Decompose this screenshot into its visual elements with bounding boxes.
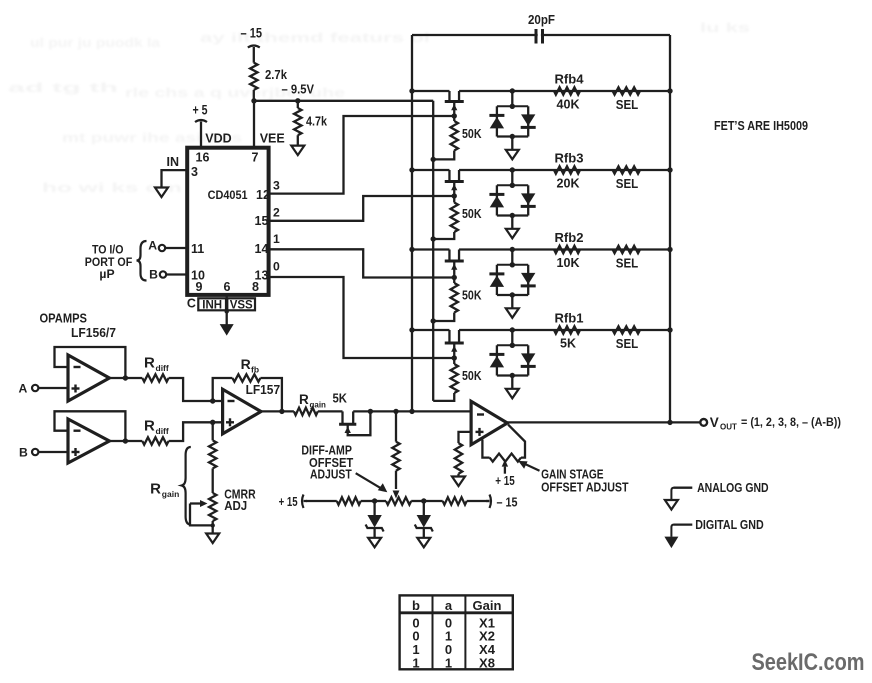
label 5K value [560,337,576,351]
wire pin13 to gate4 [269,277,455,358]
ground diode pair D4 [506,376,519,399]
svg-text:20pF: 20pF [528,12,555,27]
svg-text:5K: 5K [560,337,576,351]
svg-text:– 15: – 15 [497,494,518,509]
node -9.5V junction [251,98,300,103]
node 50K row2 to -9.5V rail [431,236,436,241]
svg-text:FET’S ARE IH5009: FET’S ARE IH5009 [714,119,808,133]
ground diode pair D3 [506,295,519,318]
terminal B [149,267,166,281]
wire Q5 to gain stage [353,409,471,414]
label Rfb4 [555,73,584,87]
svg-text:1: 1 [412,656,419,671]
ground diode pair D1 [506,137,519,160]
resistor U5 + to ground [455,443,462,476]
transistor Q1 IH5009 switch [445,91,464,116]
svg-text:C: C [187,297,196,311]
label C [187,297,196,311]
svg-text:14: 14 [255,242,269,256]
label Rfb2 [555,231,584,245]
wire U4 output [261,409,294,414]
label ADJ [224,499,247,513]
svg-text:ad tg th: ad tg th [8,80,118,95]
wire Rdiff A to U4- [169,378,223,404]
wire B to U3+ [38,451,68,453]
diode pair D4 [489,330,535,378]
node zener1 tap [372,498,377,503]
wire +15 to R [306,500,337,502]
svg-text:50K: 50K [462,369,482,383]
zener Z1 ground [368,538,381,548]
wire U3 output [109,438,142,443]
resistor Rgain vertical [209,422,216,493]
wire U5 output to VOUT [507,420,700,425]
svg-text:GAIN STAGE: GAIN STAGE [541,468,604,482]
label PORT OF [85,255,133,269]
svg-text:2: 2 [273,206,280,220]
svg-text:R: R [144,418,155,435]
wire A to pin11 [165,247,187,249]
rail output x670 [669,35,671,422]
label Rfb3 [555,152,584,166]
svg-text:10K: 10K [557,256,580,270]
svg-text:3: 3 [273,178,280,192]
wire row1 right [459,88,673,93]
pin 13 label [255,269,269,283]
wire top loop [412,34,670,36]
label 10K value [557,256,580,270]
zener Z2 ground [417,538,430,548]
svg-text:DIGITAL GND: DIGITAL GND [695,518,764,532]
svg-text:ANALOG GND: ANALOG GND [697,481,769,495]
resistor SEL row4 [613,326,640,333]
node 50K row1 to -9.5V rail [431,157,436,162]
zener Z1 [366,501,384,538]
label LF157 [246,383,281,397]
svg-text:7: 7 [252,151,259,165]
ground below 4.7k [291,135,304,155]
table row 4 [412,656,495,671]
resistor 50K row3 [433,278,458,322]
box INH [198,298,226,311]
label FETs note [714,119,808,133]
svg-text:– 9.5V: – 9.5V [282,82,315,97]
pin 10 label [191,269,205,283]
pin 11 label [191,242,204,256]
capacitor 20pF [536,29,543,44]
svg-text:A: A [148,239,157,253]
label ch 0 [273,260,280,274]
label DIFF-AMP [301,443,352,457]
transistor Q5 5K switch [339,411,370,435]
pin 6 label [224,280,231,294]
label -15 right [497,494,518,509]
svg-text:INH: INH [202,299,222,311]
svg-text:1: 1 [273,232,280,246]
svg-text:SEL: SEL [616,257,639,271]
wire pin14 to gate3 [269,249,455,277]
pin 16 label [196,151,210,165]
label LF156/7 [71,326,116,340]
digital ground symbol [664,525,692,549]
node zener2 tap [421,498,426,503]
label Rdiff B [144,418,169,437]
svg-text:Rfb1: Rfb1 [555,312,584,326]
svg-text:R: R [299,392,309,407]
svg-text:CD4051: CD4051 [208,188,248,202]
label DIGITAL GND [695,518,764,532]
wire row2 right [459,167,673,172]
table header a [445,598,453,613]
wire pin6 to digital ground [225,295,229,325]
resistor SEL row2 [613,166,640,173]
table row 1 [412,615,495,630]
svg-text:X8: X8 [479,656,495,671]
rail -9.5V x433 [432,101,434,401]
wire row1 left [409,88,449,93]
table header Gain [473,598,502,613]
label IN [167,155,180,169]
resistor Rdiff B [142,437,168,444]
box VSS [227,298,255,311]
digital ground under chip [220,324,234,336]
wire row4 right [459,327,673,332]
label 40K value [557,98,580,112]
label 20K value [557,177,580,191]
resistor Rfb4 [554,87,580,94]
rail summing junction x412 [411,35,413,411]
terminal A [148,239,165,253]
wire B to pin10 [166,273,187,275]
svg-text:20K: 20K [557,177,580,191]
table header b [412,598,420,613]
svg-text:40K: 40K [557,98,580,112]
svg-text:50K: 50K [462,289,482,303]
svg-text:9: 9 [196,280,203,294]
svg-text:LF156/7: LF156/7 [71,326,116,340]
label -9.5V [282,82,315,97]
potentiometer gain offset [482,425,525,474]
wire A to U2+ [38,387,68,389]
analog ground symbol [665,488,692,510]
resistor offset left [337,497,375,504]
pin 7 label [252,151,259,165]
svg-text:+ 5: + 5 [193,103,208,118]
wiper CMRR [190,500,215,528]
label TO I/O [92,243,124,257]
potentiometer CMRR [209,493,216,534]
svg-text:Rfb4: Rfb4 [555,73,584,87]
resistor SEL row3 [613,246,640,253]
label VEE [260,132,285,146]
wiper arrow diff offset [393,491,400,499]
wire row3 left [409,247,449,252]
svg-text:3: 3 [191,165,198,179]
svg-text:IN: IN [167,155,180,169]
svg-text:15: 15 [255,214,269,228]
svg-text:VSS: VSS [230,299,253,311]
svg-text:4.7k: 4.7k [306,114,328,129]
svg-text:SEL: SEL [616,337,639,351]
node gate4 junction [452,355,457,360]
transistor Q4 IH5009 switch [445,330,464,358]
label 2.7k [265,67,288,82]
svg-text:0: 0 [273,260,280,274]
svg-text:B: B [19,446,28,460]
diode pair D1 [489,91,535,139]
svg-text:50K: 50K [462,207,482,221]
svg-text:2.7k: 2.7k [265,67,288,82]
svg-text:diff: diff [156,363,169,373]
arrow to gain pot [518,461,539,471]
pin 14 label [255,242,269,256]
ground at pin3 [155,188,168,198]
label OPAMPS [40,312,88,326]
svg-text:b: b [412,598,420,613]
terminal B input [19,446,38,460]
svg-text:gain: gain [310,401,327,410]
op-amp U2 buffer A [68,355,109,401]
wire row2 left [409,167,449,172]
svg-text:+ 15: + 15 [279,494,298,509]
wire row4 left [409,327,449,332]
label VOUT [710,415,841,432]
svg-text:R: R [144,355,155,372]
svg-text:a: a [445,598,453,613]
svg-text:Gain: Gain [473,598,502,613]
label SEL row2 [616,177,639,191]
resistor Rfb3 [554,166,580,173]
IC U1 CD4051 body [187,148,268,295]
power -15 supply [241,26,263,63]
svg-text:lu ks: lu ks [700,20,750,35]
resistor SEL row1 [613,87,640,94]
diode pair D2 [489,170,535,218]
svg-text:8: 8 [252,280,259,294]
pin 9 label [196,280,203,294]
node gate1 junction [452,113,457,118]
diode pair D3 [489,250,535,298]
resistor Rfb2 [554,246,580,253]
label ch 2 [273,206,280,220]
svg-text:+ 15: + 15 [495,473,515,488]
resistor 2.7k [250,63,257,101]
resistor Rfb1 [554,326,580,333]
svg-text:A: A [19,382,28,396]
svg-text:B: B [149,267,158,281]
label 20pF [528,12,555,27]
label 4.7k [306,114,328,129]
label OFFSET [309,456,354,470]
pin 12 label [256,188,270,202]
tick +15 left [302,495,307,509]
label CMRR [224,488,256,502]
label Rfb1 [555,312,584,326]
label uP [99,267,114,281]
ground U5 + [452,477,465,487]
pin 15 label [255,214,269,228]
wire VEE pin7 [253,101,255,148]
node gate2 junction [452,193,457,198]
op-amp U3 buffer B [68,419,109,463]
svg-text:OPAMPS: OPAMPS [40,312,88,326]
arrow to diff pot [356,473,388,492]
zener Z2 [415,501,433,538]
wire -9.5V bus [254,100,433,102]
tick -15 right [486,495,491,509]
wire row3 right [459,247,673,252]
svg-text:ul pur ju puodk la: ul pur ju puodk la [30,35,161,50]
svg-text:ADJUST: ADJUST [310,468,352,482]
wire U2 output [109,375,142,380]
svg-text:Rfb3: Rfb3 [555,152,584,166]
wire U3 feedback [55,411,126,441]
label 5K [333,391,348,406]
svg-text:50K: 50K [462,127,482,141]
resistor 50K row4 [433,358,458,401]
svg-text:diff: diff [156,426,169,436]
svg-text:OFFSET ADJUST: OFFSET ADJUST [541,481,629,495]
resistor offset right [424,497,490,504]
svg-text:SEL: SEL [616,177,639,191]
label OFFSET ADJUST [541,481,629,495]
table row 3 [412,642,495,657]
label Rgain vertical [150,481,179,500]
svg-text:SeekIC.com: SeekIC.com [752,649,865,676]
wire Rdiff B to U4+ [169,420,223,441]
brace Rgain [182,447,191,525]
label ch 3 [273,178,280,192]
svg-text:11: 11 [191,242,204,256]
terminal VOUT [700,419,707,426]
svg-text:6: 6 [224,280,231,294]
wire pin15 to gate2 [269,196,455,221]
label SEL row1 [616,98,639,112]
label ANALOG GND [697,481,769,495]
svg-text:– 15: – 15 [241,26,263,41]
transistor Q2 IH5009 switch [445,170,464,196]
label 50K row3 [462,289,482,303]
label 50K row2 [462,207,482,221]
label +15 gain offset [495,473,515,488]
svg-text:16: 16 [196,151,210,165]
label Rfb [241,356,259,375]
label +15 left [279,494,298,509]
wire pin12 to gate1 [269,116,455,194]
svg-text:gain: gain [162,489,179,499]
brace for port [137,241,147,281]
svg-text:12: 12 [256,188,270,202]
svg-text:VEE: VEE [260,132,285,146]
svg-text:ay ilt themd featurs ol: ay ilt themd featurs ol [200,30,430,45]
svg-text:1: 1 [445,656,452,671]
terminal A input [19,382,39,396]
svg-text:LF157: LF157 [246,383,281,397]
node gate3 junction [452,275,457,280]
label VDD [205,132,231,146]
op-amp U5 gain stage [471,401,507,444]
label GAIN STAGE [541,468,604,482]
op-amp U4 LF157 [223,389,261,434]
pin 3 label [191,165,198,179]
resistor to offset wiper [392,411,399,489]
label SEL row4 [616,337,639,351]
svg-text:ADJ: ADJ [224,499,247,513]
transistor Q3 IH5009 switch [445,250,464,278]
wire U5 + input [459,432,472,443]
pin 8 label [252,280,259,294]
resistor 50K row1 [433,116,458,159]
resistor Rdiff A [142,374,168,381]
ground diode pair D2 [506,216,519,239]
svg-text:µP: µP [99,267,114,281]
resistor 4.7k [294,101,301,135]
svg-text:R: R [241,356,251,372]
truth table box [400,595,513,669]
svg-text:= (1, 2, 3, 8, – (A-B)): = (1, 2, 3, 8, – (A-B)) [741,415,841,429]
svg-text:SEL: SEL [616,98,639,112]
power +5 supply [193,103,208,148]
svg-text:R: R [150,481,161,498]
wire U2 feedback [55,347,126,378]
svg-text:VDD: VDD [205,132,231,146]
label ch 1 [273,232,280,246]
watermark SeekIC.com [752,649,865,676]
label ADJUST [310,468,352,482]
resistor Rfb feedback [213,374,282,411]
svg-text:V: V [710,415,719,430]
wire pin3 to ground [162,170,188,187]
label Rgain horizontal [299,392,326,410]
svg-text:5K: 5K [333,391,348,406]
node 50K row3 to -9.5V rail [431,318,436,323]
label Rdiff A [144,355,169,374]
svg-text:fb: fb [251,365,259,375]
svg-text:OUT: OUT [720,423,737,432]
resistor 50K row2 [433,196,458,239]
table row 2 [412,629,495,644]
resistor Rgain horizontal [294,408,343,415]
label 50K row4 [462,369,482,383]
ground below CMRR [206,534,219,544]
potentiometer diff offset [375,497,424,504]
label 50K row1 [462,127,482,141]
label SEL row3 [616,257,639,271]
svg-text:Rfb2: Rfb2 [555,231,584,245]
